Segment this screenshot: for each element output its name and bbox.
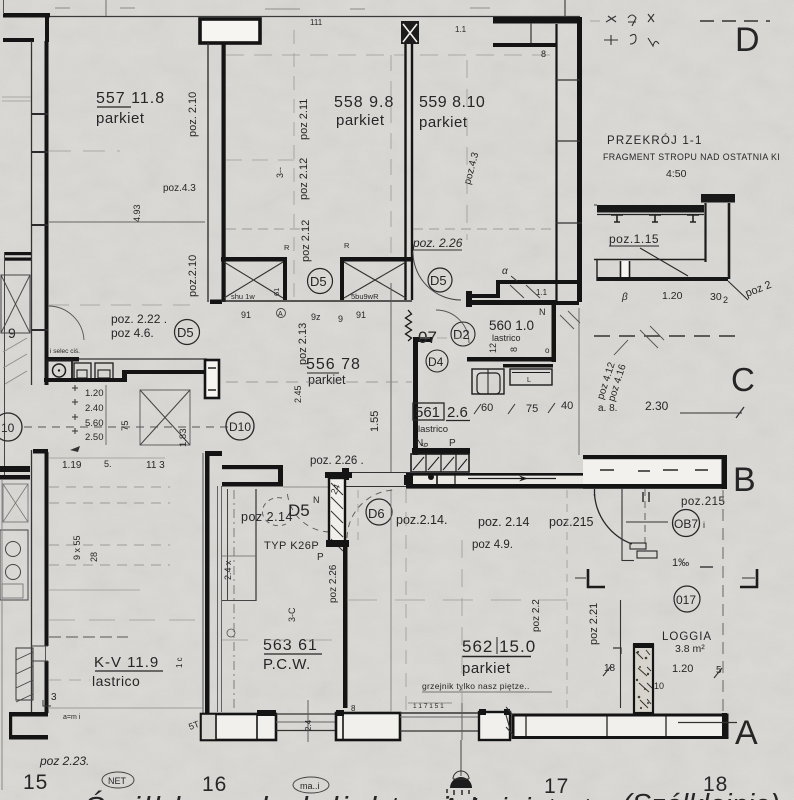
washer boxes row: [411, 454, 469, 472]
svg-text:9z: 9z: [311, 312, 321, 322]
section slab band: [594, 259, 706, 261]
wall left thick upper: [45, 41, 49, 385]
A wall pier 1: [201, 714, 276, 740]
wall 557/558 inner line: [207, 43, 209, 302]
B wall main band: [406, 476, 583, 484]
OB7 leader: [626, 521, 668, 523]
svg-text:i selec ciś.: i selec ciś.: [50, 348, 80, 355]
section corner leader: [728, 281, 748, 300]
section slab notch: [621, 261, 630, 277]
wall ties right: [556, 79, 580, 81]
svg-text:D5: D5: [177, 325, 194, 340]
svg-text:560 1.0: 560 1.0: [489, 318, 534, 333]
svg-text:D5: D5: [430, 273, 447, 288]
svg-text:poz 2.23.: poz 2.23.: [39, 754, 89, 768]
561 bottom-left cap: [412, 448, 470, 454]
svg-text:poz 2.26: poz 2.26: [328, 564, 339, 603]
washbasin box: [510, 369, 552, 385]
svg-text:75: 75: [526, 403, 538, 415]
svg-text:D4: D4: [428, 355, 444, 369]
room 560 bottom wall: [467, 357, 556, 362]
svg-text:A: A: [735, 714, 758, 752]
svg-text:12: 12: [488, 343, 498, 353]
svg-text:2.50: 2.50: [85, 432, 104, 443]
svg-text:61: 61: [272, 288, 281, 296]
wall top-left lower bar: [3, 38, 34, 42]
room 560 right wall: [552, 300, 557, 362]
svg-text:Świlble wobek licht mist: Świlble wobek licht mist: [84, 789, 482, 800]
wall left thick lower: [45, 452, 49, 646]
hatched door pier top cap: [325, 472, 352, 478]
svg-text:60: 60: [481, 402, 493, 414]
svg-text:poz 2.12: poz 2.12: [300, 220, 312, 262]
017 circle: [674, 586, 700, 612]
wall left inner line: [31, 41, 33, 385]
svg-text:B: B: [733, 461, 756, 499]
counter lower edge: [44, 378, 126, 382]
wall 563 top band bottom: [222, 482, 283, 487]
room 560 step wall d: [466, 291, 472, 307]
wall 557/558 bottom cap: [210, 300, 222, 305]
bottom-left L wall bars: [9, 712, 48, 717]
faint horizontals 556: [226, 381, 412, 383]
zigzag insulation: [406, 310, 412, 341]
wall x413 top cap: [413, 337, 432, 342]
svg-text:8: 8: [351, 704, 356, 713]
corridor right pier: [205, 360, 219, 398]
top exterior wall line: [3, 16, 580, 18]
svg-text:poz.2.10: poz.2.10: [187, 255, 199, 297]
svg-text:563 61: 563 61: [263, 637, 318, 654]
svg-text:poz. 2.22 .: poz. 2.22 .: [111, 312, 167, 326]
svg-text:2.40: 2.40: [85, 403, 104, 414]
svg-text:(Szálklejnie): (Szálklejnie): [622, 789, 780, 800]
svg-text:parkiet: parkiet: [462, 660, 511, 677]
svg-text:10: 10: [654, 681, 664, 691]
svg-text:2.6: 2.6: [447, 404, 468, 421]
D10 bubble left: [0, 413, 22, 441]
step hatch: [510, 285, 524, 298]
faint construction lines: [2, 21, 600, 712]
balcony box X: [1, 275, 30, 333]
wall left tie marks: [31, 113, 48, 115]
svg-text:D10: D10: [229, 420, 251, 434]
door D2 arc: [436, 310, 469, 343]
svg-text:1.1: 1.1: [536, 288, 548, 297]
pillar P3 top bar: [493, 17, 581, 24]
NET oval: [102, 772, 134, 788]
corridor floor edge: [48, 707, 203, 709]
wall 563 top band top: [222, 465, 283, 469]
svg-text:1.20: 1.20: [85, 388, 104, 399]
entry door arc: [48, 306, 84, 340]
node A mark: [277, 309, 286, 318]
dashed D line top right: [700, 20, 770, 22]
wardrobe 2 top bar: [340, 257, 412, 262]
svg-text:6: 6: [421, 442, 430, 447]
scribbles top right: [606, 14, 654, 26]
ma oval: [293, 777, 329, 793]
svg-text:3--: 3--: [275, 167, 285, 178]
svg-text:558 9.8: 558 9.8: [334, 94, 394, 111]
svg-text:parkiet: parkiet: [308, 373, 346, 387]
toilet box: [472, 369, 504, 394]
wall top-left vertical: [45, 13, 49, 42]
wardrobe bottom line: [221, 300, 412, 302]
svg-text:9: 9: [338, 314, 343, 324]
svg-text:1.1: 1.1: [455, 25, 467, 34]
hatched pier bottom cap: [326, 540, 349, 547]
hatched door pier: [329, 478, 345, 545]
svg-text:LOGGIA: LOGGIA: [662, 631, 712, 643]
svg-text:40: 40: [561, 400, 573, 412]
window sill tick 2: [461, 703, 463, 740]
svg-text:9 x 55: 9 x 55: [72, 535, 82, 560]
svg-text:8: 8: [541, 49, 546, 59]
svg-text:1 1 7 1 5 1: 1 1 7 1 5 1: [413, 703, 444, 710]
wardrobe 2 diagonals: [344, 262, 406, 298]
loggia pier hatched: [634, 645, 653, 713]
OB7 circle: [673, 510, 700, 537]
svg-text:2: 2: [723, 295, 728, 305]
svg-text:poz 2.11: poz 2.11: [298, 99, 310, 140]
svg-text:8: 8: [509, 347, 519, 352]
wall x413 vertical: [413, 338, 418, 455]
svg-text:5.: 5.: [104, 459, 112, 469]
door arc OB7: [595, 494, 633, 544]
svg-text:91: 91: [241, 310, 251, 320]
svg-text:poz. 2.10: poz. 2.10: [187, 92, 199, 137]
svg-text:poz. 2.26: poz. 2.26: [412, 236, 463, 250]
svg-text:poz 2.2: poz 2.2: [531, 599, 542, 632]
svg-text:557 11.8: 557 11.8: [96, 90, 165, 107]
svg-text:o: o: [545, 346, 550, 355]
section column body: [704, 203, 706, 262]
svg-text:1.20: 1.20: [662, 290, 683, 302]
wall 563/562 vertical: [343, 547, 348, 708]
svg-text:10: 10: [1, 421, 15, 435]
svg-text:3.8 m²: 3.8 m²: [675, 643, 705, 655]
loggia left line: [620, 600, 622, 708]
pillar P3 seam: [530, 23, 532, 43]
svg-text:559 8.10: 559 8.10: [419, 94, 485, 111]
pillar P1: [200, 19, 260, 43]
dashed jamb line: [644, 489, 646, 550]
svg-text:FRAGMENT STROPU NAD OSTATNIA K: FRAGMENT STROPU NAD OSTATNIA KI: [603, 152, 780, 162]
svg-text:a=m i: a=m i: [63, 714, 81, 721]
A leader line: [678, 722, 737, 724]
svg-text:poz.2.14.: poz.2.14.: [396, 513, 447, 527]
svg-text:C: C: [731, 361, 755, 398]
B wall left block: [342, 468, 349, 480]
svg-text:parkiet: parkiet: [336, 112, 385, 129]
wall 558/559 double line: [404, 44, 406, 300]
svg-text:poz. 2.14: poz. 2.14: [478, 515, 529, 529]
lamp mark 17: [453, 771, 469, 779]
svg-text:poz.4.3: poz.4.3: [163, 183, 196, 194]
svg-text:017: 017: [676, 593, 696, 607]
left edge line top: [3, 0, 5, 14]
svg-text:TYP K26P: TYP K26P: [264, 540, 319, 552]
left edge line lower: [1, 480, 3, 790]
section column head: [701, 194, 735, 203]
svg-text:PRZEKRÓJ 1-1: PRZEKRÓJ 1-1: [607, 134, 703, 147]
svg-text:1‰: 1‰: [672, 557, 689, 569]
left wall lower jog: [33, 449, 48, 454]
svg-text:561: 561: [415, 404, 440, 421]
wardrobe 1 top bar: [221, 257, 287, 262]
wall top-left bar: [3, 13, 50, 18]
svg-text:15: 15: [23, 771, 48, 794]
svg-text:P.C.W.: P.C.W.: [263, 656, 311, 673]
faint line room557: [49, 221, 205, 223]
svg-text:1.83: 1.83: [178, 429, 189, 448]
wardrobe 1 right bar: [283, 257, 287, 300]
leader to slab: [640, 248, 688, 276]
kitchen counter top bar: [46, 357, 79, 362]
radiator dome: [450, 777, 472, 788]
svg-text:N: N: [313, 495, 320, 505]
svg-text:A: A: [278, 311, 283, 318]
A wall pier 2: [336, 713, 400, 740]
A long band: [513, 715, 727, 738]
loggia right dashes: [722, 490, 724, 713]
D5 circle left: [175, 320, 200, 345]
svg-text:NET: NET: [108, 776, 127, 786]
wall 563 top jog bar: [205, 451, 222, 456]
svg-text:Administrator: Administrator: [438, 792, 619, 800]
svg-text:i: i: [703, 520, 705, 530]
svg-text:L: L: [527, 377, 531, 384]
A wall pier 3: [479, 712, 510, 740]
svg-text:91: 91: [356, 310, 366, 320]
wall 557/558 thick: [222, 43, 226, 302]
svg-text:N: N: [539, 307, 546, 317]
dashed corridor line: [24, 426, 228, 428]
svg-text:P: P: [449, 438, 456, 449]
svg-text:4.93: 4.93: [132, 204, 142, 222]
balcony lower box with circles: [0, 530, 28, 600]
svg-text:2.4: 2.4: [304, 719, 313, 731]
note small row: [408, 702, 452, 704]
svg-text:parkiet: parkiet: [419, 114, 468, 131]
pillar P3 lower bar: [493, 43, 557, 47]
svg-text:poz 4.6.: poz 4.6.: [111, 326, 154, 340]
section hatch marks: [611, 215, 623, 222]
svg-text:2.30: 2.30: [645, 399, 669, 413]
svg-text:D5: D5: [310, 274, 327, 289]
door D5 arc 559: [413, 252, 461, 300]
leader small: [614, 340, 628, 355]
B wall left thin part: [346, 472, 411, 474]
563 fixtures lines: [227, 489, 229, 600]
svg-text:3-C: 3-C: [287, 607, 297, 622]
kitchen sink box: [47, 360, 72, 381]
svg-text:D2: D2: [453, 327, 470, 342]
svg-text:5bu9wR: 5bu9wR: [351, 292, 379, 301]
top dim dashes: [105, 0, 107, 16]
svg-text:1.20: 1.20: [672, 663, 693, 675]
wardrobe 2 left bar: [340, 257, 344, 300]
svg-text:poz. 2.26 .: poz. 2.26 .: [310, 455, 364, 467]
svg-text:R: R: [344, 241, 350, 250]
section mark right: [740, 569, 758, 588]
room 560 bottom second: [503, 364, 553, 368]
svg-text:shu 1w: shu 1w: [231, 292, 255, 301]
svg-text:75: 75: [120, 420, 131, 431]
svg-text:lastrico: lastrico: [492, 333, 521, 343]
svg-text:poz.1.15: poz.1.15: [609, 232, 659, 246]
svg-text:28: 28: [89, 552, 99, 562]
label D4: [426, 350, 448, 372]
room 560 step wall a: [496, 280, 578, 284]
D6 circle: [366, 499, 392, 525]
A window sill 1: [276, 713, 336, 715]
balcony dark blocks: [0, 466, 30, 472]
door leaf marks: [630, 543, 646, 549]
wall left inner lower: [31, 450, 33, 712]
wall right inner line: [555, 24, 557, 302]
svg-text:556 78: 556 78: [306, 356, 361, 373]
svg-text:poz 2.12: poz 2.12: [298, 158, 310, 200]
D5 circle middle: [308, 269, 333, 294]
kitchen boxes: [74, 363, 91, 381]
svg-text:β: β: [621, 292, 628, 303]
svg-text:4:50: 4:50: [666, 168, 687, 180]
svg-text:D6: D6: [368, 506, 385, 521]
D10 bubble right: [226, 412, 254, 440]
door D5 dashed arc 563: [287, 489, 329, 532]
stairs X box: [140, 390, 190, 445]
svg-text:3: 3: [51, 692, 57, 703]
svg-text:562 15.0: 562 15.0: [462, 637, 536, 656]
svg-text:grzejnik tylko nasz piętze.: grzejnik tylko nasz piętze..: [422, 681, 530, 691]
svg-text:K-V 11.9: K-V 11.9: [94, 654, 159, 671]
right outer wall: [577, 17, 582, 302]
room 560 step wall c: [469, 294, 500, 298]
svg-text:D: D: [735, 21, 760, 59]
wardrobe 1 diagonals: [224, 262, 283, 298]
KV dim arrow: [49, 636, 128, 638]
svg-text:111: 111: [310, 18, 323, 27]
svg-text:2.4 x: 2.4 x: [223, 560, 233, 580]
wall 563 top band cap: [278, 465, 283, 486]
svg-text:OB7: OB7: [674, 517, 698, 531]
svg-text:poz.215: poz.215: [681, 496, 725, 508]
wall link 560 to outer: [556, 301, 579, 305]
B wall right band: [583, 459, 727, 485]
radiator center line: [460, 740, 462, 776]
plumbing line: [390, 283, 392, 472]
label D2: [451, 322, 475, 346]
pillar P2 small dark: [401, 21, 419, 44]
balcony double bar: [5, 252, 31, 255]
svg-text:D5: D5: [288, 501, 310, 520]
left scratch diagonals: [3, 338, 27, 384]
svg-text:2.45: 2.45: [293, 385, 303, 403]
svg-text:α: α: [502, 266, 508, 277]
door D6 dashed arc: [347, 490, 395, 538]
svg-text:lastrico: lastrico: [418, 424, 448, 435]
room 560 top wall: [466, 300, 556, 305]
left column small boxes: [3, 484, 28, 522]
radiator hatched: [16, 648, 33, 700]
room 561 label box: [413, 403, 444, 420]
svg-text:R: R: [284, 243, 290, 252]
svg-text:07: 07: [418, 328, 437, 347]
svg-text:11 3: 11 3: [146, 460, 165, 471]
A window sill 2: [400, 712, 479, 714]
dashed C line: [594, 335, 735, 337]
section slab top dark: [597, 205, 704, 213]
svg-text:lastrico: lastrico: [92, 673, 140, 689]
svg-text:1 c: 1 c: [175, 657, 184, 668]
svg-text:poz 2.21: poz 2.21: [588, 603, 600, 645]
door opening line: [283, 486, 330, 488]
svg-text:poz 4.9.: poz 4.9.: [472, 539, 513, 551]
vertical faint x579: [578, 308, 580, 455]
svg-text:30: 30: [710, 291, 722, 303]
corridor line 562: [621, 489, 623, 561]
wall KV/563 vertical: [205, 451, 210, 713]
svg-text:parkiet: parkiet: [96, 110, 145, 127]
dashed lines KV: [49, 486, 170, 488]
balcony left line: [4, 252, 6, 475]
svg-text:1.19: 1.19: [62, 460, 82, 471]
diagonal marks right of 560: [560, 311, 664, 348]
svg-text:P: P: [317, 552, 324, 563]
svg-text:1.55: 1.55: [369, 411, 381, 432]
svg-text:poz.215: poz.215: [549, 515, 594, 529]
D5 circle 559: [428, 268, 452, 292]
vertical line x391 low: [390, 489, 392, 712]
svg-text:a. 8.: a. 8.: [598, 403, 617, 414]
section mark left: [587, 569, 605, 588]
room 560 step wall b: [496, 280, 500, 298]
